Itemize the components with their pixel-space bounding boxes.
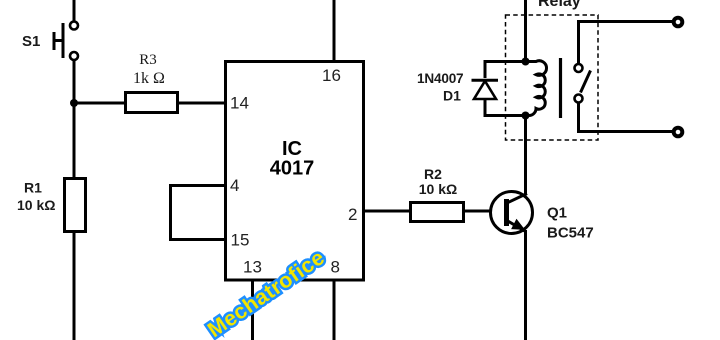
svg-text:14: 14 [230,94,249,113]
svg-text:R2: R2 [424,166,442,182]
svg-text:1N4007: 1N4007 [417,71,463,86]
terminal COM [674,128,683,137]
wire pin 8 [333,279,336,340]
svg-text:4017: 4017 [270,158,315,180]
svg-text:R1: R1 [24,180,42,196]
resistor R2 [411,203,464,222]
wire Q1 emitter to bottom rail [524,230,527,340]
wire top supply to coil [524,0,527,62]
svg-text:BC547: BC547 [547,225,594,242]
wire R2 to Q1 base [463,210,491,213]
wire pin 13 [251,279,254,340]
wire top contact to NO terminal [579,22,673,65]
wire junction to R3 [74,102,126,105]
svg-text:10 kΩ: 10 kΩ [17,197,55,213]
svg-text:Relay: Relay [538,0,581,10]
wire pin 16 [333,0,336,61]
svg-text:10 kΩ: 10 kΩ [419,181,457,197]
wire Q1 collector to coil [524,114,527,194]
wire pin4 to pin15 loop [171,186,226,240]
wire bottom contact to COM terminal [579,103,673,132]
svg-text:13: 13 [243,258,262,277]
wire S1 to R1 [73,60,76,178]
resistor R3 [126,93,178,113]
svg-text:8: 8 [331,258,340,277]
wire R1 to bottom rail [73,231,76,340]
diode D1 branch wires [485,62,525,116]
node coil top [522,58,530,66]
svg-text:4: 4 [230,176,239,195]
pushbutton S1 [54,22,78,61]
svg-text:1k Ω: 1k Ω [133,70,165,87]
relay core bar [559,58,562,118]
resistor R1 [65,179,86,232]
wire R3 to pin 14 [177,102,225,105]
svg-text:2: 2 [348,205,357,224]
svg-text:15: 15 [231,231,250,250]
relay dashed enclosure [506,15,599,140]
wire pin 2 to R2 [364,210,411,213]
wire supply to S1 top [73,0,76,22]
node coil bottom [522,112,530,120]
svg-text:S1: S1 [22,33,40,50]
svg-text:Q1: Q1 [547,205,567,222]
svg-text:R3: R3 [139,52,157,68]
relay switch contacts [575,64,591,103]
relay coil [527,61,547,116]
op IC U1 4017 body [226,62,364,281]
svg-text:D1: D1 [443,88,461,104]
transistor Q1 [491,192,533,234]
node junction A [70,99,78,107]
svg-text:16: 16 [322,66,341,85]
terminal NO [674,18,683,27]
diode D1 [472,80,499,99]
